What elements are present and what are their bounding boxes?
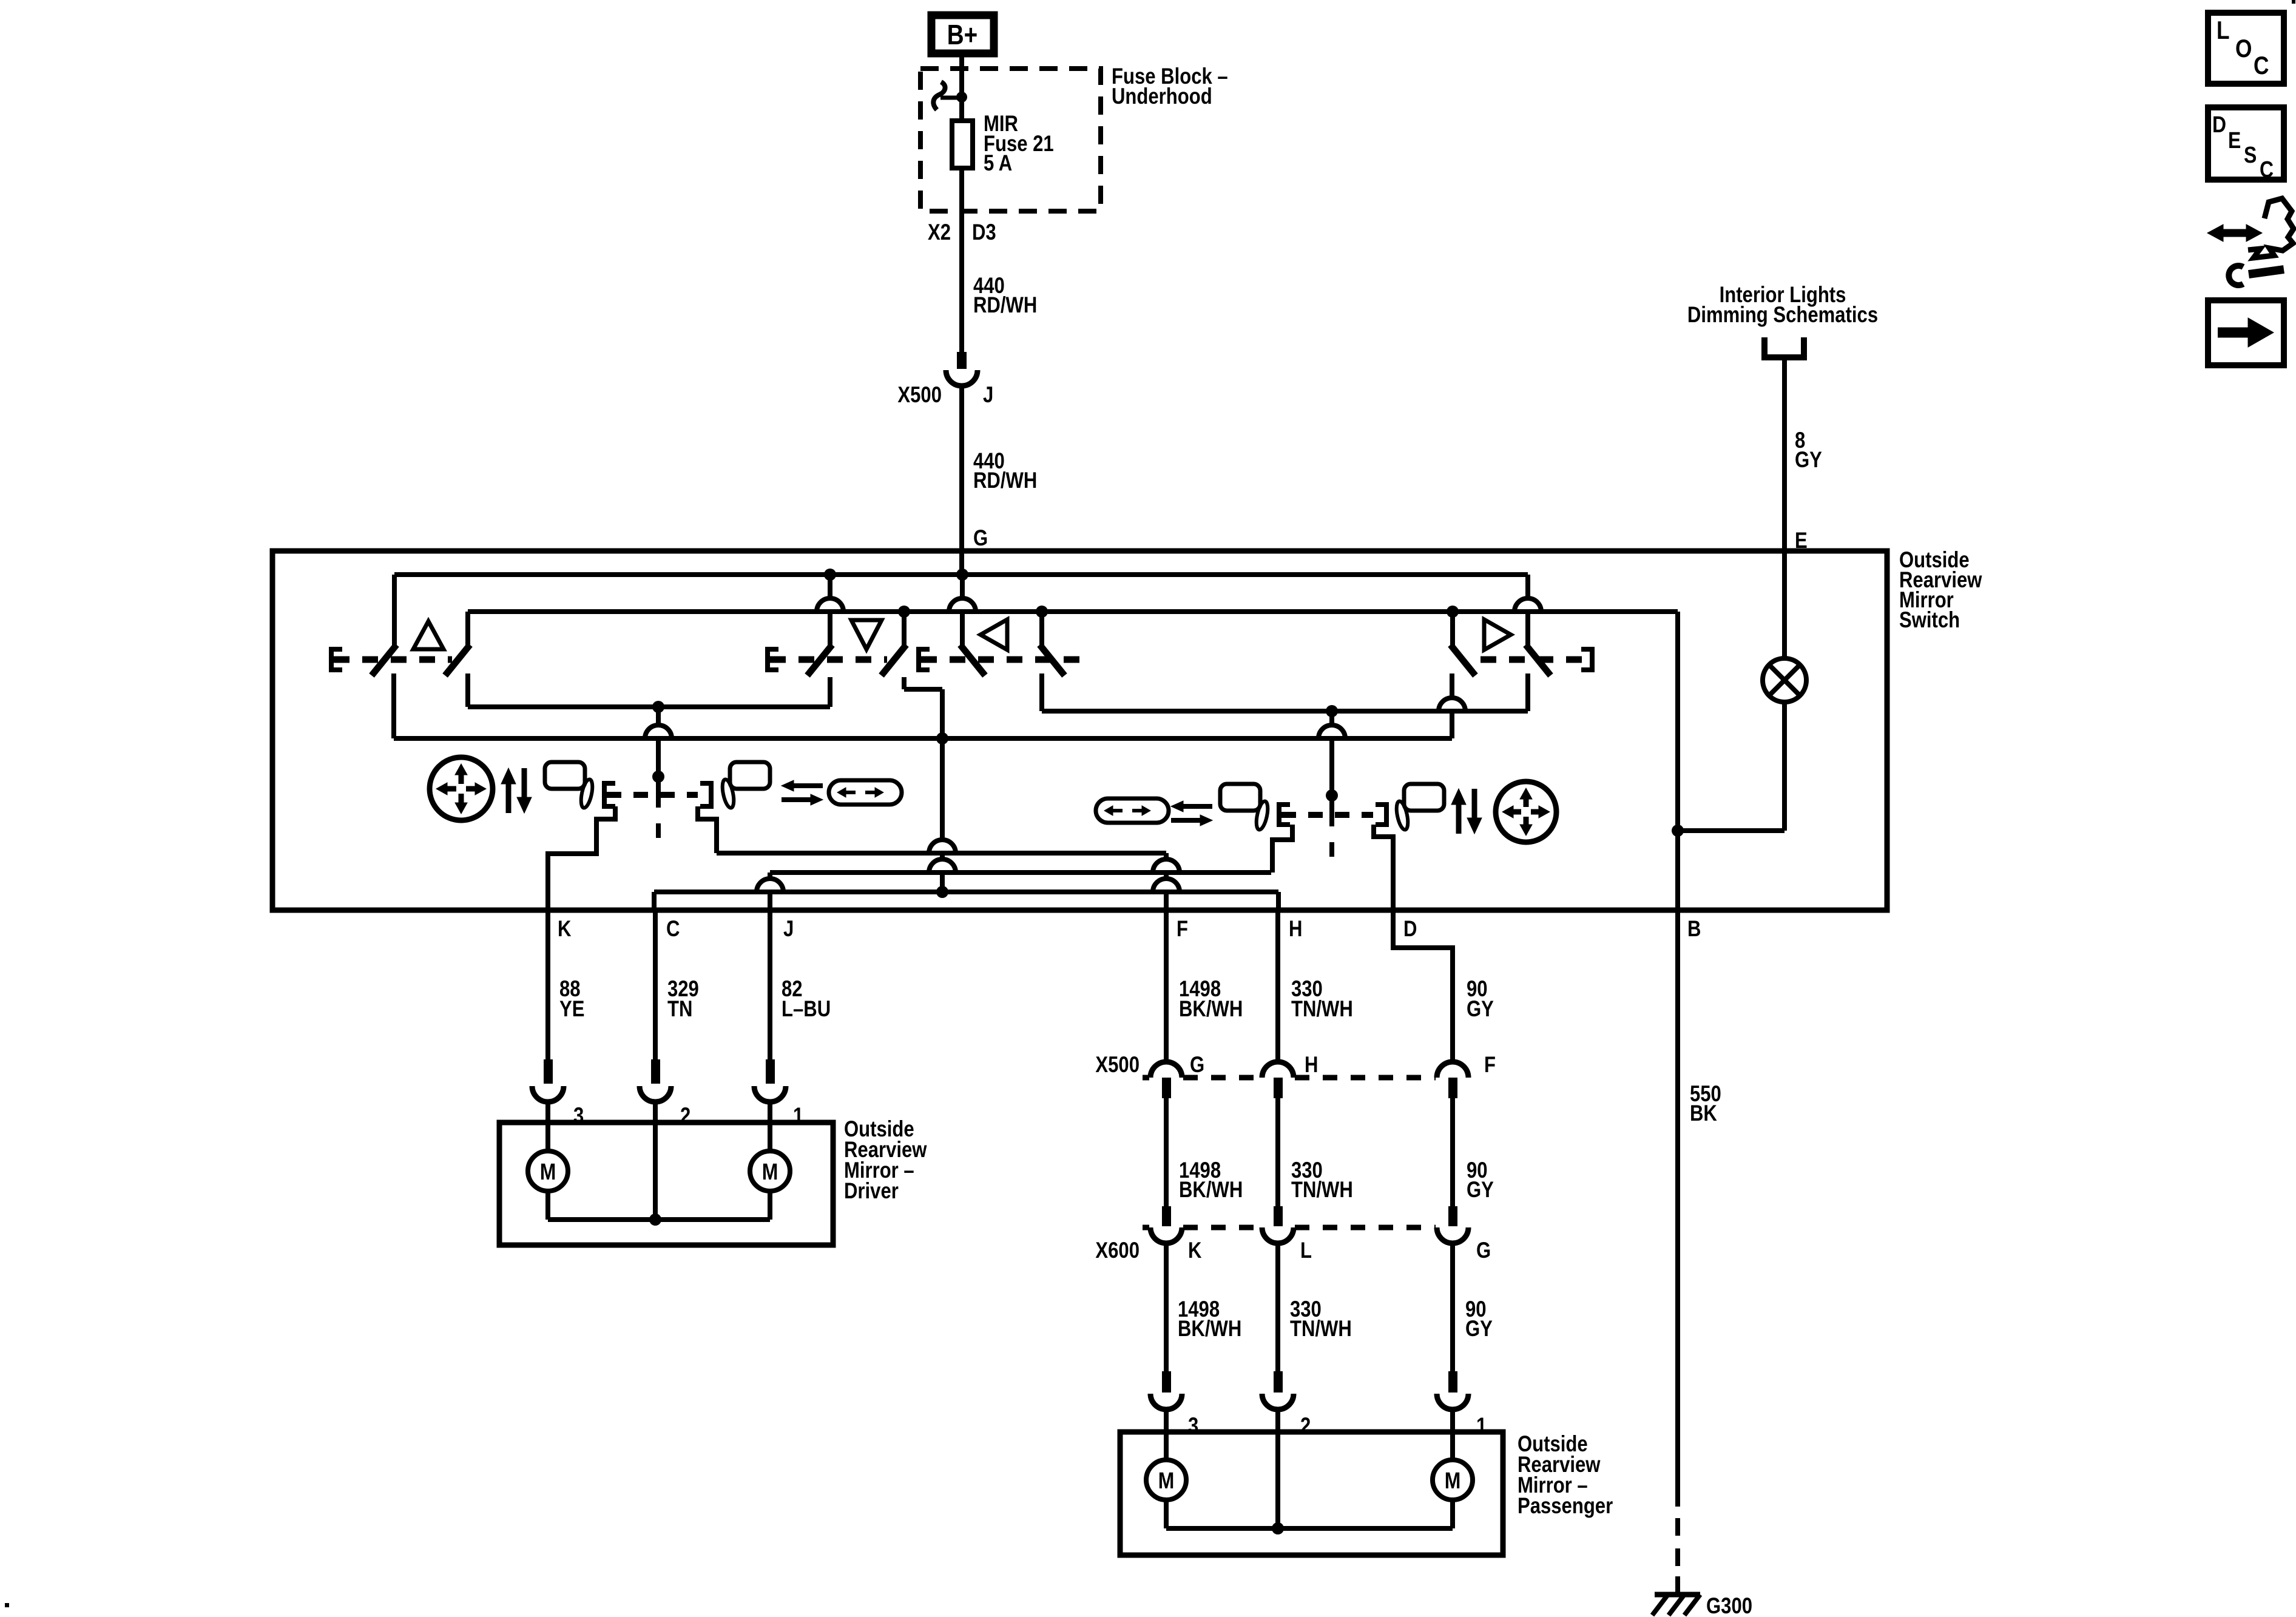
svg-text:BK/WH: BK/WH [1178,1317,1241,1342]
svg-text:C: C [2260,157,2274,182]
svg-text:BK/WH: BK/WH [1179,997,1243,1022]
svg-text:RD/WH: RD/WH [973,468,1037,493]
svg-text:M: M [762,1159,778,1184]
svg-text:Dimming Schematics: Dimming Schematics [1687,303,1878,328]
svg-text:G: G [1190,1053,1204,1078]
svg-text:D3: D3 [972,220,996,245]
svg-text:M: M [1158,1468,1175,1493]
svg-text:Passenger: Passenger [1518,1494,1613,1519]
svg-text:B: B [1687,917,1701,942]
svg-text:G: G [973,526,988,551]
svg-text:C: C [666,917,680,942]
svg-text:TN: TN [667,997,692,1022]
svg-text:Underhood: Underhood [1112,84,1212,109]
svg-text:5 A: 5 A [984,151,1012,176]
svg-text:Driver: Driver [844,1179,899,1204]
svg-text:K: K [1188,1238,1202,1263]
svg-text:H: H [1289,917,1302,942]
svg-text:D: D [2212,112,2226,137]
svg-text:M: M [540,1159,556,1184]
svg-text:TN/WH: TN/WH [1291,1178,1353,1203]
svg-text:YE: YE [559,997,584,1022]
svg-text:X500: X500 [897,383,942,408]
svg-text:RD/WH: RD/WH [973,293,1037,318]
svg-text:GY: GY [1795,448,1822,473]
svg-text:S: S [2244,142,2257,167]
svg-text:GY: GY [1467,997,1494,1022]
svg-text:C: C [2254,52,2269,80]
svg-text:G: G [1476,1238,1491,1263]
svg-text:F: F [1484,1053,1496,1078]
svg-text:E: E [2228,127,2241,153]
svg-text:X500: X500 [1095,1053,1140,1078]
svg-text:J: J [983,383,993,408]
svg-text:GY: GY [1465,1317,1493,1342]
svg-text:D: D [1403,917,1417,942]
svg-text:M: M [1445,1468,1461,1493]
svg-text:F: F [1177,917,1188,942]
svg-text:L: L [2217,16,2230,45]
svg-text:BK/WH: BK/WH [1179,1178,1243,1203]
svg-text:GY: GY [1467,1178,1494,1203]
svg-text:BK: BK [1690,1101,1717,1126]
svg-text:X600: X600 [1095,1238,1140,1263]
svg-text:TN/WH: TN/WH [1290,1317,1352,1342]
svg-text:G300: G300 [1706,1594,1752,1617]
svg-text:B+: B+ [947,19,977,50]
svg-text:K: K [558,917,572,942]
svg-text:Switch: Switch [1899,608,1960,633]
svg-text:L: L [1300,1238,1312,1263]
svg-text:J: J [783,917,794,942]
svg-text:TN/WH: TN/WH [1291,997,1353,1022]
svg-text:O: O [2235,35,2252,63]
svg-text:X2: X2 [928,220,951,245]
svg-text:L–BU: L–BU [782,997,831,1022]
svg-text:H: H [1305,1053,1318,1078]
